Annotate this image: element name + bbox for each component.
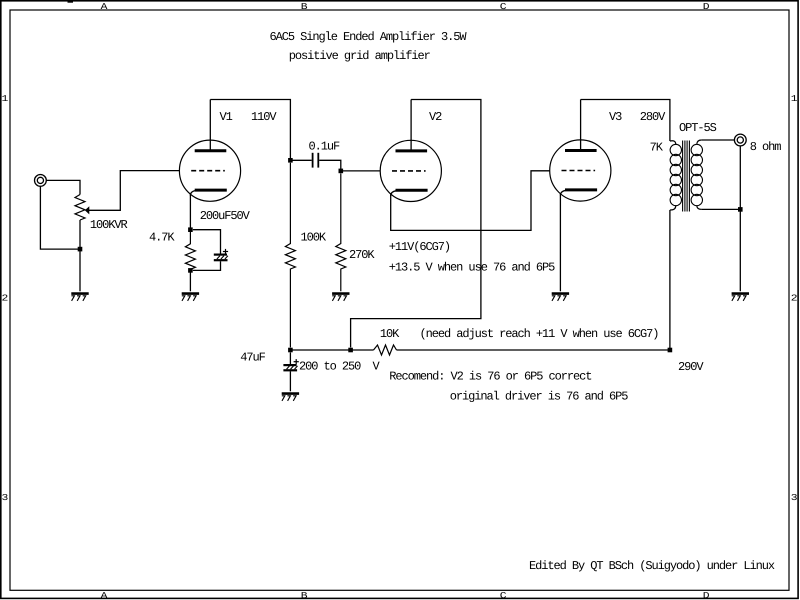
triode V2 envelope <box>380 140 441 201</box>
V2 cathode bend <box>391 191 397 196</box>
ground at output jack <box>732 294 749 301</box>
T1 core laminations <box>683 141 690 212</box>
V1 plate lead <box>209 100 211 151</box>
node V2 grid junction <box>339 169 344 174</box>
V1 cathode lead <box>189 194 191 230</box>
C3 plus mark <box>294 359 299 364</box>
V1 grid dashed line <box>191 170 225 172</box>
V3 grid dashed line <box>562 170 596 172</box>
wire bus left segment <box>290 349 373 351</box>
V1 cathode bend <box>190 191 195 196</box>
C2 plus mark <box>223 249 228 254</box>
wire V2 cathode to V3 grid <box>391 171 550 231</box>
wire bus right segment <box>397 349 670 351</box>
T1 primary coil <box>670 144 681 205</box>
svg-text:D: D <box>703 591 710 600</box>
svg-text:270K: 270K <box>349 248 375 262</box>
svg-text:(need adjust reach +11 V when: (need adjust reach +11 V when use 6CG7) <box>420 327 659 341</box>
svg-text:A: A <box>101 2 109 12</box>
svg-text:3: 3 <box>791 493 798 503</box>
resistor R2 100K <box>285 163 295 348</box>
svg-text:47uF: 47uF <box>240 350 265 364</box>
V3 plate bar <box>565 149 597 152</box>
svg-text:C: C <box>500 591 508 600</box>
wire C2 bottom to junction <box>193 261 221 270</box>
triode V3 envelope <box>550 140 611 201</box>
svg-text:3: 3 <box>2 493 9 503</box>
svg-text:+11V(6CG7): +11V(6CG7) <box>389 240 450 254</box>
T1 secondary coil <box>691 144 702 205</box>
wire 4.7K bottom to ground <box>189 270 191 291</box>
V2 grid dashed line <box>392 170 426 172</box>
svg-text:7K: 7K <box>650 141 664 155</box>
output jack J2 <box>734 134 746 146</box>
capacitor C3 47uF plates <box>283 365 297 370</box>
top edge tick mark <box>68 1 74 3</box>
wire cathode branch to cap C2 <box>193 230 221 254</box>
transformer T1 OPT-5S primary hook top <box>670 141 676 145</box>
node pot bottom junction <box>78 247 83 252</box>
ground at C3 <box>282 394 299 401</box>
ground at 4.7K <box>182 294 199 301</box>
wire C1 to grid node <box>319 160 341 171</box>
svg-text:10K: 10K <box>380 327 400 341</box>
svg-text:V1: V1 <box>220 110 233 124</box>
svg-text:2: 2 <box>791 293 798 303</box>
svg-text:100KVR: 100KVR <box>90 218 128 232</box>
V2 plate bar <box>396 149 428 152</box>
V3 cathode bend <box>560 190 565 195</box>
wire V3 plate to transformer primary <box>581 100 670 142</box>
potentiometer wiper arrow <box>85 206 90 214</box>
V1 cathode bar <box>195 189 227 192</box>
svg-text:4.7K: 4.7K <box>149 231 175 245</box>
svg-text:2: 2 <box>2 293 9 303</box>
T1 secondary hook top <box>697 140 702 144</box>
ground at 270K <box>332 294 349 301</box>
potentiometer VR1 100KVR body <box>75 195 85 221</box>
svg-text:B: B <box>301 591 309 600</box>
ground at pot <box>71 294 88 301</box>
svg-text:290V: 290V <box>678 360 704 374</box>
wire secondary bottom <box>702 208 741 210</box>
node bus right junction <box>668 348 673 353</box>
svg-text:8 ohm: 8 ohm <box>750 140 782 154</box>
wire B+ node to cap C1 <box>290 159 311 161</box>
input jack J1 <box>35 175 47 187</box>
svg-text:1: 1 <box>2 94 9 104</box>
V2 cathode bar <box>396 189 428 192</box>
svg-text:OPT-5S: OPT-5S <box>679 121 717 135</box>
svg-text:original driver is 76 and 6P5: original driver is 76 and 6P5 <box>450 390 629 404</box>
wire jack to pot top <box>46 180 80 194</box>
resistor R1 4.7K <box>185 230 195 271</box>
wire jack sleeve to ground node <box>40 186 80 249</box>
V3 plate lead <box>580 100 582 151</box>
capacitor C2 200uF50V plates <box>214 255 228 261</box>
svg-text:positive grid amplifier: positive grid amplifier <box>289 49 431 63</box>
svg-text:V3: V3 <box>609 110 622 124</box>
svg-text:280V: 280V <box>640 110 666 124</box>
wire jack down to secondary bottom <box>739 146 741 291</box>
node B+ tap junction <box>288 158 293 163</box>
svg-text:V2: V2 <box>429 110 442 124</box>
capacitor C1 0.1uF <box>313 153 319 168</box>
ground at V3 cathode <box>552 294 569 301</box>
svg-text:Recomend: V2 is 76 or 6P5 corr: Recomend: V2 is 76 or 6P5 correct <box>389 370 591 384</box>
svg-text:1: 1 <box>791 94 798 104</box>
node 4.7K bottom junction <box>188 268 193 273</box>
V3 cathode lead to ground <box>559 194 561 291</box>
wire T1 primary bottom to bus <box>669 210 671 350</box>
svg-text:A: A <box>101 591 109 600</box>
wire V2 plate riser <box>351 100 481 348</box>
V3 cathode bar <box>565 188 597 191</box>
wire grid node to V2 <box>341 170 380 172</box>
svg-text:Edited By QT BSch (Suigyodo) u: Edited By QT BSch (Suigyodo) under Linux <box>529 559 775 573</box>
svg-text:110V: 110V <box>251 110 277 124</box>
svg-text:0.1uF: 0.1uF <box>309 140 341 154</box>
svg-text:D: D <box>703 2 710 12</box>
wire C3 to ground <box>289 371 291 391</box>
V1 plate bar <box>195 149 227 152</box>
wire wiper to V1 grid <box>89 171 179 211</box>
node V1 cathode junction <box>188 227 193 232</box>
node bus V2 drop junction <box>348 348 353 353</box>
wire secondary top to output jack <box>702 139 735 141</box>
svg-text:C: C <box>500 2 508 12</box>
triode V1 envelope <box>179 140 240 201</box>
T1 secondary hook bottom <box>697 206 702 210</box>
svg-text:200uF50V: 200uF50V <box>200 209 251 223</box>
resistor R4 10K <box>374 345 397 355</box>
resistor R3 270K <box>336 173 346 291</box>
V2 plate lead <box>410 100 412 151</box>
wire V1 plate to B+ node <box>210 100 290 161</box>
svg-text:B: B <box>301 2 309 12</box>
T1 primary hook bottom <box>670 205 676 210</box>
node bus left junction <box>288 348 293 353</box>
potentiometer bottom lead <box>79 220 81 291</box>
node secondary bottom junction <box>738 207 743 212</box>
svg-text:200 to 250 V: 200 to 250 V <box>299 360 381 374</box>
svg-text:6AC5 Single Ended Amplifier 3.: 6AC5 Single Ended Amplifier 3.5W <box>270 30 468 44</box>
svg-text:+13.5 V when use 76 and 6P5: +13.5 V when use 76 and 6P5 <box>389 261 555 275</box>
wire bus to C3 <box>289 353 291 365</box>
svg-text:100K: 100K <box>301 231 327 245</box>
